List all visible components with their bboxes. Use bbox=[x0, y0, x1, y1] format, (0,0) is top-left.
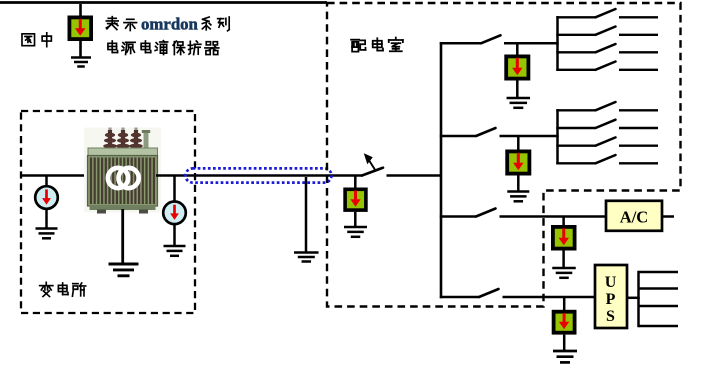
ground CT1 bbox=[36, 229, 58, 239]
wire legend SPD to ground bbox=[79, 40, 82, 57]
svg-text:A/C: A/C bbox=[620, 208, 648, 227]
wire CT1 drop bbox=[45, 176, 48, 188]
wire branch3 from bus bbox=[440, 215, 476, 218]
wire transformer to ground bbox=[121, 209, 124, 264]
label 图中 bbox=[22, 33, 51, 47]
label 电源电涌保护器 bbox=[108, 41, 219, 55]
load bus vertical bbox=[637, 271, 640, 327]
switch S2c blade bbox=[596, 137, 616, 145]
wire SPD br2 drop bbox=[517, 136, 520, 151]
wire UPS right stub bbox=[627, 297, 640, 300]
wire S3 to A/C bbox=[500, 215, 608, 218]
ground SPD branch4 bbox=[553, 351, 577, 362]
switch S2b blade bbox=[596, 120, 616, 128]
wire SPD br3 drop bbox=[562, 217, 565, 227]
switch S2 blade bbox=[476, 128, 496, 136]
svg-text:P: P bbox=[606, 291, 616, 308]
label 表示 omrdon 系列 bbox=[106, 15, 229, 34]
wire main feeder right segment bbox=[156, 174, 363, 177]
wire sub-branch 1d right bbox=[619, 69, 658, 71]
wire cable shield drop bbox=[305, 177, 308, 253]
switch S1d blade bbox=[596, 62, 616, 70]
surge protector SPD branch4 bbox=[552, 310, 577, 335]
label 配电室 bbox=[351, 38, 403, 52]
ground SPD branch2 bbox=[507, 192, 529, 202]
wire sub-branch 1d left bbox=[556, 69, 595, 71]
ground cable shield bbox=[294, 253, 319, 262]
svg-text:U: U bbox=[605, 274, 617, 291]
wire sub-branch 1a right bbox=[619, 16, 658, 18]
wire main feeder left segment bbox=[21, 174, 89, 177]
wire S0 to bus bbox=[387, 174, 443, 177]
wire sub-branch 1b left bbox=[556, 34, 595, 36]
switch S4 blade bbox=[479, 289, 499, 297]
wire SPD br3 to ground bbox=[562, 251, 565, 269]
switch S1 blade bbox=[481, 35, 501, 43]
wire sub-branch 2b right bbox=[619, 127, 658, 129]
switch S0 open-direction arrow bbox=[364, 153, 376, 170]
switch S1c blade bbox=[596, 44, 616, 52]
wire load line 4 bbox=[639, 325, 679, 327]
winding symbol circles on T1 bbox=[108, 168, 139, 188]
UPS box bbox=[595, 265, 627, 328]
switch S3 blade bbox=[476, 209, 496, 217]
wire SPD incoming drop bbox=[354, 176, 357, 190]
transformer T1 (photo) bbox=[84, 128, 161, 214]
wire sub-branch 2c right bbox=[619, 144, 658, 146]
wire CT2 drop bbox=[173, 176, 176, 203]
wire legend SPD top stub bbox=[79, 4, 82, 17]
switch S1b blade bbox=[596, 27, 616, 35]
surge protector SPD legend bbox=[68, 16, 94, 42]
surge protector SPD incoming bbox=[343, 188, 367, 212]
wire load line 2 bbox=[639, 287, 679, 289]
cable duct blue dotted stadium bbox=[186, 168, 332, 182]
wire S4 to UPS bbox=[503, 296, 597, 299]
wire SPD br2 to ground bbox=[517, 176, 520, 192]
wire S1 to sub-bus1 bbox=[504, 42, 559, 45]
current sensor CT1 bbox=[35, 186, 58, 209]
wire sub-branch 2a left bbox=[556, 109, 595, 111]
surge protector SPD branch1 bbox=[504, 55, 530, 81]
switch S2a blade bbox=[596, 102, 616, 110]
wire sub-branch 1c right bbox=[619, 51, 658, 53]
wire sub-branch 2a right bbox=[619, 109, 658, 111]
wire CT1 to ground bbox=[45, 209, 48, 229]
wire SPD br4 to ground bbox=[563, 335, 566, 351]
switch S2d blade bbox=[596, 155, 616, 163]
wire branch4 from bus bbox=[440, 296, 479, 299]
sub-bus 2 bbox=[556, 109, 559, 164]
wire SPD br1 to ground bbox=[516, 81, 519, 99]
wire CT2 to ground bbox=[173, 224, 176, 246]
switch S1a blade bbox=[596, 9, 616, 17]
wire sub-branch 2c left bbox=[556, 144, 595, 146]
wire SPD br4 drop bbox=[563, 297, 566, 311]
svg-text:S: S bbox=[606, 308, 615, 325]
wire sub-branch 1a left bbox=[556, 16, 595, 18]
wire load line 1 bbox=[639, 271, 679, 273]
wire sub-branch 1c left bbox=[556, 51, 595, 53]
ground CT2 bbox=[164, 246, 186, 256]
bus main vertical bbox=[440, 42, 443, 298]
wire load line 3 bbox=[639, 305, 679, 307]
ground SPD branch3 bbox=[552, 268, 576, 278]
sub-bus 1 bbox=[556, 16, 559, 71]
wire sub-branch 2d right bbox=[619, 162, 658, 164]
distribution room dashed boundary 配电室 bbox=[327, 3, 681, 307]
wire branch1 from bus bbox=[440, 42, 481, 45]
label UPS bbox=[605, 274, 617, 325]
wire SPD br1 drop bbox=[516, 43, 519, 56]
switch S0 blade (incoming) bbox=[362, 168, 383, 176]
ground transformer bbox=[109, 264, 139, 276]
ground legend bbox=[71, 58, 91, 67]
wire sub-branch 1b right bbox=[619, 34, 658, 36]
current sensor CT2 bbox=[163, 202, 186, 225]
label 变电所 bbox=[40, 282, 86, 296]
ground SPD incoming bbox=[344, 227, 367, 237]
ground SPD branch1 bbox=[507, 98, 531, 108]
svg-text:omrdon: omrdon bbox=[141, 15, 199, 34]
wire SPD incoming to ground bbox=[354, 212, 357, 227]
wire sub-branch 2b left bbox=[556, 127, 595, 129]
surge protector SPD branch2 bbox=[505, 150, 531, 176]
wire S2 to sub-bus2 bbox=[500, 135, 559, 138]
top border line bbox=[0, 1, 327, 4]
substation dashed box 变电所 bbox=[21, 111, 195, 313]
wire sub-branch 2d left bbox=[556, 162, 595, 164]
surge protector SPD branch3 bbox=[551, 225, 577, 251]
wire branch2 from bus bbox=[440, 135, 476, 138]
wire A/C right stub bbox=[662, 215, 674, 218]
A/C box bbox=[606, 201, 662, 231]
